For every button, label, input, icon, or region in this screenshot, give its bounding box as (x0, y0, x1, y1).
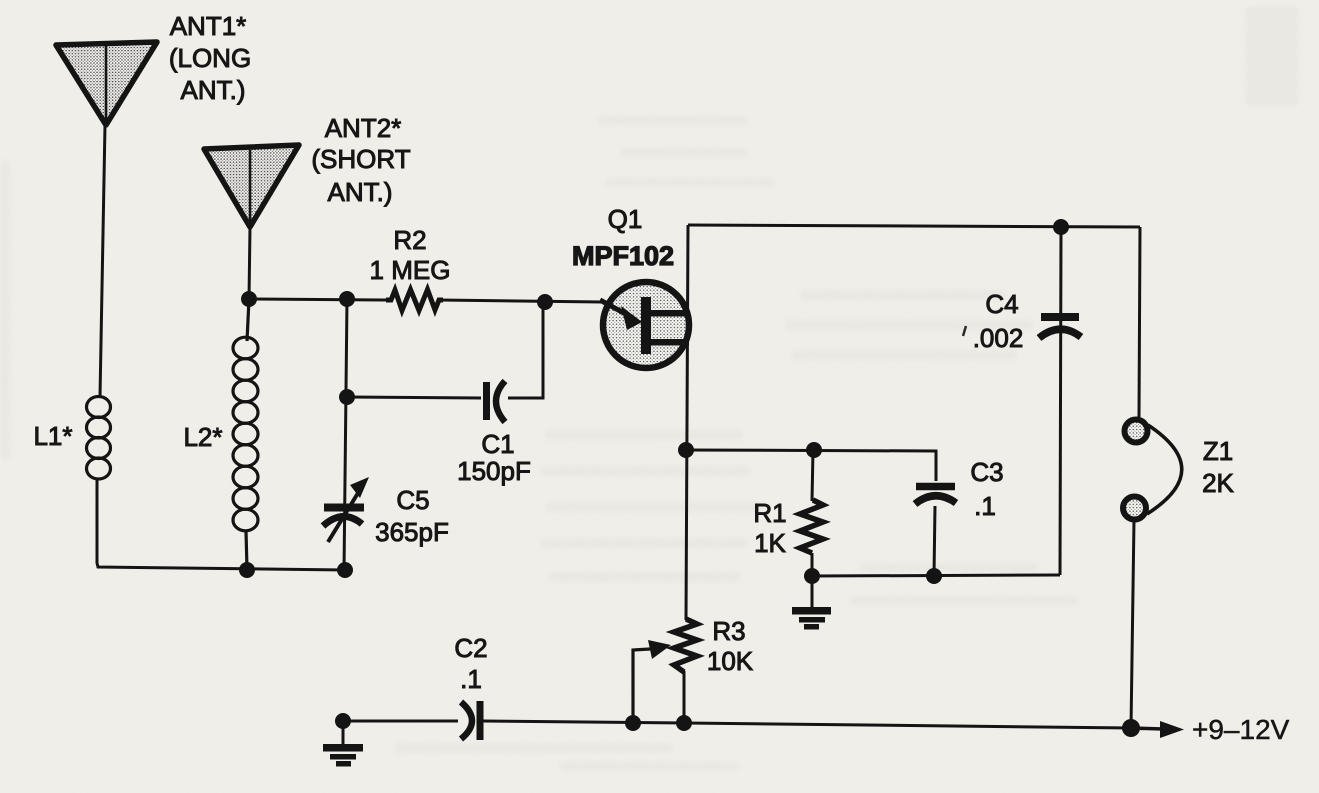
wire top rail (688, 225, 1140, 227)
speck apostrophe before .002 (963, 326, 966, 336)
node gate / C1 branch (537, 294, 553, 310)
node R3 bottom (676, 715, 692, 731)
svg-text:(LONG: (LONG (169, 43, 251, 73)
svg-text:150pF: 150pF (457, 456, 531, 486)
node L2 bottom on wire (239, 562, 255, 578)
svg-text:C1: C1 (481, 429, 514, 459)
inductor L2 (233, 299, 258, 569)
capacitor C3 (915, 487, 956, 505)
resistor R2 (386, 290, 443, 311)
wire top rail corner down to Z1 (1139, 227, 1140, 417)
svg-text:1 MEG: 1 MEG (370, 255, 451, 285)
svg-text:2K: 2K (1202, 468, 1234, 498)
svg-text:Q1: Q1 (608, 204, 643, 234)
resistor R1 (800, 450, 823, 576)
svg-text:R1: R1 (753, 498, 786, 528)
wire C3 bottom lead (934, 506, 935, 576)
wire bottom rail right segment (483, 721, 1131, 728)
inductor L1 (87, 397, 111, 480)
svg-text:ANT.): ANT.) (181, 75, 246, 105)
wire bottom rail left segment (343, 720, 458, 723)
node C3 bottom (926, 568, 942, 584)
svg-text:.1: .1 (974, 491, 996, 521)
wire below R3 to bottom (683, 671, 686, 723)
earphone Z1 (1123, 420, 1182, 520)
wire bypass bottom rail (812, 575, 1060, 576)
wire L1 bottom lead (97, 479, 345, 570)
capacitor C2 (461, 701, 480, 740)
svg-text:ANT.): ANT.) (328, 177, 393, 207)
wire C1 to gate node (508, 302, 543, 398)
svg-text:ANT1*: ANT1* (170, 11, 247, 41)
svg-text:Z1: Z1 (1203, 436, 1233, 466)
wire Z1 bottom lead (1131, 520, 1134, 728)
transistor Q1 (600, 282, 689, 368)
node R3 wiper bottom (625, 715, 641, 731)
antenna ANT1 (56, 42, 157, 125)
svg-text:.002: .002 (973, 323, 1024, 353)
capacitor C5 (variable) (323, 477, 369, 542)
svg-text:+9–12V: +9–12V (1192, 714, 1290, 745)
svg-text:10K: 10K (707, 646, 754, 676)
svg-text:365pF: 365pF (375, 517, 449, 547)
node gate wire / C5 branch (339, 291, 355, 307)
wire C5 branch vertical (344, 299, 347, 571)
svg-text:C5: C5 (396, 485, 429, 515)
svg-text:(SHORT: (SHORT (311, 144, 410, 174)
node supply junction (1122, 719, 1140, 737)
ground below R1 (792, 576, 831, 630)
node at ANT2 / L2 / gate wire (241, 291, 257, 307)
supply arrow (1131, 721, 1184, 738)
ground bottom-left (323, 721, 363, 767)
node R1 bottom (804, 568, 820, 584)
svg-text:R3: R3 (712, 616, 745, 646)
capacitor C4 (1039, 227, 1081, 575)
svg-text:ANT2*: ANT2* (325, 113, 402, 143)
antenna ANT2 (204, 145, 299, 227)
node C1 branch on C5 wire (339, 389, 355, 405)
wire drain-source vertical line (686, 225, 688, 620)
node C5 bottom (337, 562, 353, 578)
svg-text:1K: 1K (754, 528, 786, 558)
svg-text:C3: C3 (970, 457, 1003, 487)
svg-text:MPF102: MPF102 (572, 241, 674, 271)
wire ANT1 lead to L1 (100, 125, 105, 397)
svg-text:C2: C2 (454, 633, 487, 663)
potentiometer R3 (633, 619, 697, 723)
node source junction (678, 442, 694, 458)
wire C1 branch horizontal (347, 397, 481, 398)
svg-text:.1: .1 (460, 664, 482, 694)
capacitor C1 (487, 381, 506, 422)
svg-text:L1*: L1* (33, 421, 72, 451)
wire gate line right segment (439, 300, 602, 302)
wire source horizontal to C3 (686, 450, 936, 481)
node top rail / C4 (1053, 219, 1069, 235)
wire gate line left segment (249, 299, 386, 300)
wire ANT2 lead (249, 227, 250, 299)
svg-text:R2: R2 (393, 225, 426, 255)
node R1 top (806, 442, 822, 458)
node bottom-left ground junction (335, 713, 351, 729)
svg-text:L2*: L2* (183, 422, 222, 452)
svg-text:C4: C4 (985, 289, 1018, 319)
